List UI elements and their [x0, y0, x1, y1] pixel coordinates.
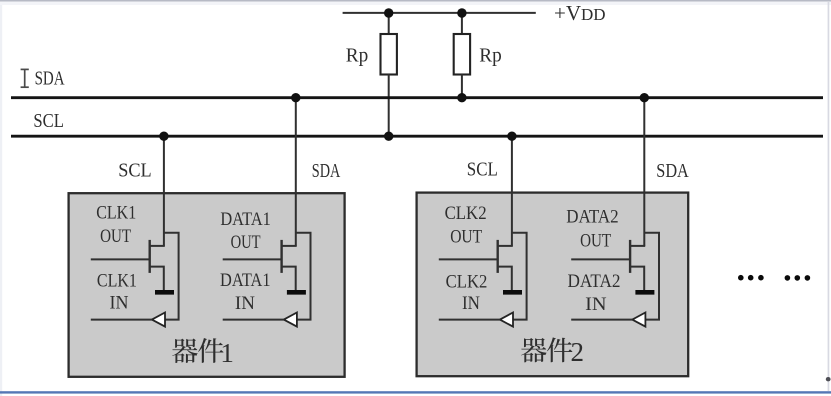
ellipsis dots group 1: [738, 275, 764, 281]
input buffer triangle (device1 SDA IN): [284, 313, 297, 327]
svg-text:IN: IN: [462, 293, 480, 314]
junction: Rp2 at VDD rail: [457, 8, 466, 17]
svg-text:2: 2: [570, 337, 584, 367]
svg-text:OUT: OUT: [450, 227, 482, 248]
device box 器件2: [417, 193, 689, 377]
svg-text:1: 1: [220, 338, 234, 368]
wire: device2 SDA gate lead from OUT: [571, 258, 630, 260]
wire: device1 SCL IN lead: [91, 319, 152, 321]
wire: device1 SDA gate lead from OUT: [223, 258, 282, 260]
junction: Rp1 at SCL bus: [384, 132, 393, 141]
svg-text:CLK1: CLK1: [96, 203, 136, 224]
transistor device2 SCL output driver: channel bar: [497, 240, 499, 273]
ground symbol (device1 SDA source): [287, 290, 306, 295]
wire: resistor Rp2 bottom to SDA bus: [461, 74, 463, 98]
label 器件1 (device 1 name): [172, 338, 234, 368]
wire: device1 SCL gate lead from OUT: [91, 258, 150, 260]
transistor device1 SDA output driver: channel bar: [280, 240, 282, 273]
wire: device1 SCL branch jog to input buffer: [164, 233, 179, 320]
transistor device2 SDA output driver: channel bar: [629, 240, 631, 273]
wire: VDD rail to resistor Rp1 top: [388, 13, 390, 35]
ground symbol (device2 SDA source): [635, 290, 654, 295]
junction: device2 SDA pin at bus: [640, 93, 649, 102]
svg-text:Rp: Rp: [346, 45, 369, 67]
svg-text:SDA: SDA: [312, 161, 341, 182]
svg-text:SCL: SCL: [467, 160, 498, 181]
junction: device2 SCL pin at bus: [507, 132, 516, 141]
wire: SDA bus line: [11, 96, 823, 99]
ground symbol (device1 SCL source): [155, 290, 174, 295]
wire: device2 SCL IN lead: [439, 319, 500, 321]
page top border strip: [0, 0, 831, 5]
wire: device1 SDA branch jog to input buffer: [296, 233, 311, 320]
transistor device1 SCL output driver: channel bar: [148, 240, 150, 273]
wire: device1 SCL drain lead: [150, 245, 165, 247]
svg-text:SCL: SCL: [118, 161, 152, 182]
svg-text:IN: IN: [585, 294, 607, 315]
wire: device2 SDA pin drop from bus: [643, 98, 645, 246]
svg-text:SDA: SDA: [656, 161, 689, 182]
svg-text:DATA2: DATA2: [568, 271, 621, 292]
resistor Rp1 body: [381, 34, 397, 75]
page bottom blue rule: [0, 391, 831, 393]
svg-text:IN: IN: [235, 293, 255, 314]
wire: device2 SDA branch jog to input buffer: [644, 233, 659, 320]
scrollbar artifact bottom-right: [826, 377, 831, 381]
input buffer triangle (device2 SDA IN): [632, 313, 645, 327]
svg-text:OUT: OUT: [580, 230, 611, 251]
wire: resistor Rp1 bottom to SCL bus: [388, 74, 390, 136]
wire: device2 SDA source lead: [630, 267, 644, 291]
svg-text:CLK1: CLK1: [97, 270, 137, 291]
wire: device1 SDA IN lead: [223, 319, 284, 321]
label 器件2 (device 2 name): [521, 337, 584, 367]
svg-text:+VDD: +VDD: [554, 1, 606, 25]
device box 器件1: [69, 193, 345, 377]
wire: +VDD power rail: [343, 12, 536, 14]
junction: device1 SDA pin at bus: [291, 93, 300, 102]
svg-text:CLK2: CLK2: [446, 272, 488, 293]
wire: device1 SCL source lead: [150, 267, 164, 291]
svg-text:SDA: SDA: [35, 68, 65, 89]
wire: device1 SDA drain lead: [282, 245, 297, 247]
page left edge: [0, 5, 2, 396]
ground symbol (device2 SCL source): [503, 290, 522, 295]
junction: Rp1 at VDD rail: [384, 8, 393, 17]
svg-text:OUT: OUT: [231, 232, 261, 253]
svg-text:DATA2: DATA2: [566, 206, 618, 227]
input buffer triangle (device2 SCL IN): [500, 313, 513, 327]
wire: VDD rail to resistor Rp2 top: [461, 13, 463, 35]
input buffer triangle (device1 SCL IN): [152, 313, 165, 327]
svg-text:CLK2: CLK2: [445, 203, 487, 224]
svg-text:SCL: SCL: [33, 111, 64, 132]
resistor Rp2 body: [454, 34, 470, 75]
wire: device1 SDA pin drop from bus: [295, 98, 297, 246]
svg-text:Rp: Rp: [479, 45, 502, 67]
svg-text:DATA1: DATA1: [220, 270, 271, 291]
wire: device2 SCL pin drop from bus: [511, 136, 513, 246]
wire: device2 SCL source lead: [498, 267, 512, 291]
junction: Rp2 at SDA bus: [457, 93, 466, 102]
svg-text:DATA1: DATA1: [220, 209, 271, 230]
wire: device2 SDA IN lead: [571, 319, 632, 321]
svg-text:OUT: OUT: [100, 226, 131, 247]
wire: device1 SCL pin drop from bus: [163, 136, 165, 246]
page right edge: [828, 2, 830, 391]
svg-text:IN: IN: [110, 292, 129, 313]
wire: device2 SDA drain lead: [630, 245, 645, 247]
wire: device2 SCL drain lead: [498, 245, 513, 247]
wire: device1 SDA source lead: [282, 267, 296, 291]
wire: SCL bus line: [11, 135, 823, 138]
ellipsis dots group 2: [785, 275, 811, 281]
wire: device2 SCL gate lead from OUT: [439, 258, 498, 260]
text cursor I-beam artifact: [21, 69, 29, 87]
wire: device2 SCL branch jog to input buffer: [512, 233, 527, 320]
junction: device1 SCL pin at bus: [159, 132, 168, 141]
